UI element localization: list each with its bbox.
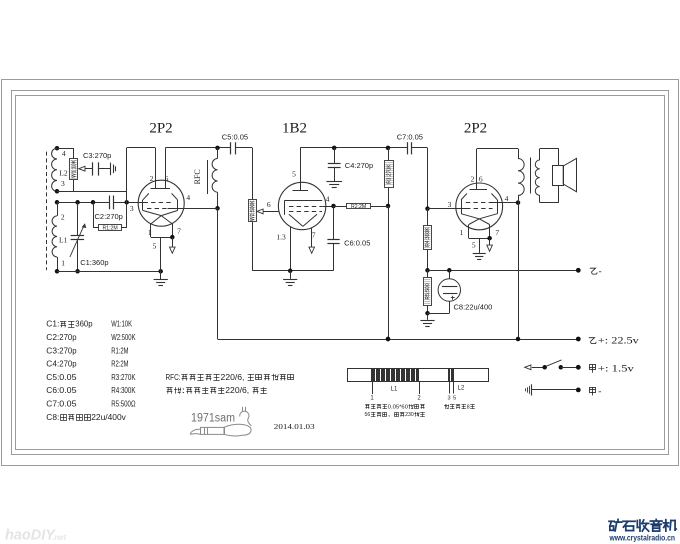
svg-text:C6:0.05: C6:0.05	[344, 239, 370, 248]
svg-text:2014.01.03: 2014.01.03	[274, 422, 315, 431]
svg-text:1B2: 1B2	[282, 120, 307, 136]
svg-text:,: ,	[388, 412, 394, 418]
svg-text:1: 1	[370, 395, 374, 401]
svg-text:220/6,: 220/6,	[225, 386, 251, 395]
svg-text:W2:500K: W2:500K	[111, 333, 136, 342]
svg-text:C4:270p: C4:270p	[345, 161, 373, 170]
svg-text:www.crystalradio.cn: www.crystalradio.cn	[609, 534, 676, 543]
svg-text:2: 2	[150, 174, 154, 183]
svg-text:3: 3	[447, 396, 450, 402]
svg-text:R5:500Ω: R5:500Ω	[111, 399, 135, 408]
svg-text:3: 3	[61, 179, 65, 188]
svg-text:C6:: C6:	[46, 386, 59, 395]
svg-text:RFC:: RFC:	[166, 373, 181, 382]
svg-text:C1:: C1:	[46, 320, 59, 329]
svg-text:haoDIY: haoDIY	[5, 528, 56, 544]
svg-text:7: 7	[177, 227, 181, 236]
svg-text:0.05: 0.05	[59, 373, 77, 382]
svg-text:6: 6	[479, 174, 483, 183]
svg-text:2P2: 2P2	[464, 121, 487, 137]
svg-text:-: -	[598, 387, 601, 397]
svg-text:22u/400v: 22u/400v	[91, 413, 126, 422]
svg-text:3: 3	[130, 204, 134, 213]
svg-text:230: 230	[405, 412, 414, 418]
svg-text:270p: 270p	[59, 346, 77, 355]
svg-text:+: 22.5v: +: 22.5v	[598, 336, 639, 346]
svg-text:R3:270K: R3:270K	[387, 164, 393, 184]
svg-text:C7:: C7:	[46, 399, 59, 408]
svg-text:5: 5	[292, 170, 296, 179]
svg-text:7: 7	[312, 231, 316, 240]
svg-text:R1:2M: R1:2M	[102, 226, 117, 232]
svg-text:C7:0.05: C7:0.05	[397, 133, 423, 142]
svg-text:1: 1	[61, 259, 65, 268]
svg-text:0.05: 0.05	[59, 399, 77, 408]
svg-text:2: 2	[61, 212, 65, 221]
svg-text:L1: L1	[59, 236, 68, 245]
svg-text:1: 1	[148, 228, 152, 237]
svg-text:R4:300K: R4:300K	[111, 386, 136, 395]
svg-text:7: 7	[495, 228, 499, 237]
svg-text:W1:10K: W1:10K	[111, 320, 132, 329]
svg-text:360p: 360p	[75, 320, 93, 329]
svg-text:R5:500: R5:500	[425, 283, 431, 299]
svg-text:C8:: C8:	[46, 413, 59, 422]
svg-text:RFC: RFC	[193, 169, 202, 184]
svg-text:270p: 270p	[59, 360, 77, 369]
svg-text:C3:270p: C3:270p	[83, 151, 111, 160]
svg-text:C2:270p: C2:270p	[95, 212, 123, 221]
svg-text:+: 1.5v: +: 1.5v	[598, 364, 634, 374]
svg-text:-: -	[599, 267, 602, 277]
svg-text:2P2: 2P2	[149, 120, 172, 136]
svg-text:R1:2M: R1:2M	[111, 346, 128, 355]
svg-text:R3:270K: R3:270K	[111, 373, 136, 382]
svg-text:R2:2M: R2:2M	[351, 204, 366, 210]
svg-text:270p: 270p	[59, 333, 77, 342]
svg-text:2: 2	[417, 395, 421, 401]
svg-text:L2: L2	[59, 169, 68, 178]
svg-text:0.05: 0.05	[59, 386, 77, 395]
svg-text:1: 1	[460, 228, 464, 237]
svg-text:5: 5	[472, 240, 476, 249]
svg-text::: :	[182, 386, 186, 395]
svg-text:6: 6	[165, 174, 169, 183]
svg-text:4: 4	[62, 149, 66, 158]
svg-text:3: 3	[448, 200, 452, 209]
svg-text:C5:0.05: C5:0.05	[222, 133, 248, 142]
svg-text:C3:: C3:	[46, 346, 59, 355]
svg-text:56: 56	[365, 412, 371, 418]
svg-text:5: 5	[453, 396, 456, 402]
svg-text:C8:22u/400: C8:22u/400	[454, 302, 493, 311]
svg-text:2: 2	[471, 174, 475, 183]
svg-text:4: 4	[186, 193, 190, 202]
svg-text:C4:: C4:	[46, 360, 59, 369]
svg-text:4: 4	[505, 194, 509, 203]
svg-text:C2:: C2:	[46, 333, 59, 342]
svg-text:.net: .net	[52, 533, 67, 542]
svg-text:W1:10K: W1:10K	[71, 159, 77, 177]
svg-text:R2:2M: R2:2M	[111, 360, 128, 369]
svg-text:L1: L1	[391, 386, 398, 392]
svg-text:W2:500K: W2:500K	[250, 200, 256, 221]
svg-text:1.3: 1.3	[276, 232, 286, 241]
svg-text:220/6,: 220/6,	[221, 373, 247, 382]
svg-text:4: 4	[326, 194, 330, 203]
svg-text:8: 8	[467, 404, 470, 410]
svg-text:5: 5	[153, 242, 157, 251]
svg-text:0.05*60: 0.05*60	[388, 404, 408, 410]
svg-text:C1:360p: C1:360p	[80, 258, 108, 267]
svg-text:C5:: C5:	[46, 373, 59, 382]
svg-text:6: 6	[267, 200, 271, 209]
svg-text:1971sam: 1971sam	[191, 412, 235, 424]
svg-text:R4:300K: R4:300K	[425, 227, 431, 247]
svg-text:L2: L2	[458, 386, 465, 392]
